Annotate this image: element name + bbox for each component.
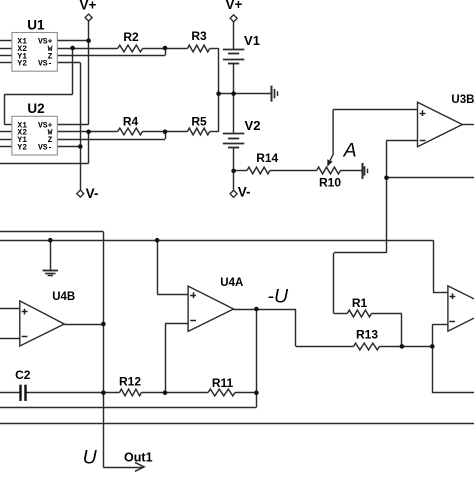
svg-text:R11: R11 [212,376,234,390]
svg-text:C2: C2 [15,368,31,382]
svg-text:R3: R3 [191,29,207,43]
svg-text:R5: R5 [191,115,207,129]
svg-text:R14: R14 [256,151,278,165]
svg-text:U: U [83,447,98,469]
svg-text:VS-: VS- [38,60,52,69]
svg-text:U4B: U4B [52,291,75,303]
svg-text:R2: R2 [123,30,139,44]
svg-text:Y2: Y2 [17,143,27,152]
svg-text:R1: R1 [352,296,368,310]
svg-text:Y2: Y2 [17,60,27,69]
svg-text:-U: -U [268,286,289,308]
svg-text:A: A [343,140,357,162]
svg-text:R13: R13 [356,328,378,342]
svg-text:V1: V1 [244,33,260,48]
svg-text:R4: R4 [123,115,139,129]
svg-text:V+: V+ [79,0,96,13]
svg-text:U3B: U3B [451,94,474,106]
svg-text:V2: V2 [245,118,261,133]
svg-text:V-: V- [238,185,251,200]
svg-text:R10: R10 [319,176,341,190]
svg-text:R12: R12 [119,374,141,388]
svg-text:V+: V+ [226,0,243,12]
svg-text:U4A: U4A [220,277,243,289]
svg-text:Out1: Out1 [124,450,153,464]
svg-text:V-: V- [86,186,99,201]
svg-text:U2: U2 [27,101,44,116]
svg-text:VS-: VS- [38,143,52,152]
svg-text:U1: U1 [27,17,45,32]
